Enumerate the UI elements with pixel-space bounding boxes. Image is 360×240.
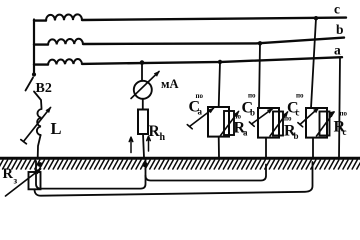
svg-text:В2: В2 <box>36 81 52 96</box>
wire left vertical bus <box>33 20 35 76</box>
wire phase line a <box>34 57 342 64</box>
node branch b tap <box>258 41 262 45</box>
wire branch c to ground <box>312 138 314 158</box>
node branch c tap <box>314 16 318 20</box>
arrow of resistor Rc <box>317 112 335 136</box>
svg-text:c: c <box>296 108 300 118</box>
wire L to ground <box>38 135 41 158</box>
arrow of capacitor Cb <box>252 109 273 124</box>
svg-text:b: b <box>250 108 255 118</box>
wire phase line b <box>34 38 344 45</box>
wire line a to branch a <box>219 62 220 107</box>
svg-text:a: a <box>243 128 248 138</box>
inductor coil on line a <box>48 59 82 65</box>
svg-text:a: a <box>198 107 203 117</box>
resistor Rh <box>138 110 148 135</box>
arrow of resistor Ra <box>221 112 239 136</box>
wire branch a to ground <box>218 137 220 158</box>
arrow of resistor Rз <box>6 169 41 196</box>
wire underground left link <box>36 161 146 189</box>
svg-text:по: по <box>196 92 204 100</box>
wire branch b to ground <box>265 138 267 158</box>
node earth junction near L <box>38 162 43 167</box>
svg-text:h: h <box>160 132 166 143</box>
svg-text:L: L <box>51 119 62 138</box>
svg-text:R: R <box>3 166 14 182</box>
arrow of capacitor Ca <box>190 108 214 126</box>
node switch top contact <box>32 72 36 76</box>
node Rh earth junction <box>142 162 147 167</box>
resistor Rb (variable) box <box>273 112 283 136</box>
meter mA <box>134 81 152 99</box>
arrow of meter <box>131 72 159 99</box>
arrow of resistor Rb <box>270 112 288 136</box>
svg-text:мА: мА <box>161 77 179 91</box>
svg-text:по: по <box>340 110 348 118</box>
inductor coil on line b <box>48 39 83 45</box>
node meter tap on line a <box>140 60 145 65</box>
arrow of variable inductor L <box>24 108 51 142</box>
resistor Rc (variable) box <box>320 112 330 136</box>
wire phase line c <box>34 18 346 21</box>
svg-text:c: c <box>334 2 340 17</box>
svg-text:по: по <box>234 113 242 121</box>
svg-text:з: з <box>14 176 18 186</box>
capacitor Ca (variable) box <box>208 107 229 137</box>
wire meter to Rh <box>142 99 144 110</box>
wire line b to branch b <box>259 43 260 108</box>
svg-text:по: по <box>296 92 304 100</box>
wire underground inner loop <box>146 159 267 181</box>
wire line a to meter <box>141 63 143 81</box>
resistor Rз (earthing) box <box>29 172 41 189</box>
capacitor Cc (variable) box <box>306 108 327 138</box>
svg-text:b: b <box>336 22 344 37</box>
current arrow left of Rh <box>129 137 133 152</box>
wire line c to branch c <box>311 18 316 108</box>
switch B2 blade <box>26 78 34 91</box>
inductor coil on line c <box>46 14 82 20</box>
wire switch to inductor L <box>34 92 42 109</box>
current arrow right of Rh <box>147 136 151 151</box>
node branch a tap <box>218 60 222 64</box>
ground hatching <box>0 160 360 169</box>
svg-text:c: c <box>343 127 347 137</box>
wire Rh to ground <box>143 134 144 158</box>
wire underground outer loop <box>35 162 313 196</box>
ground surface line <box>0 157 360 160</box>
wire right end of line a down to ground <box>339 58 340 159</box>
svg-text:a: a <box>334 43 341 58</box>
capacitor Cb (variable) box <box>258 108 279 138</box>
inductor L (variable) <box>37 109 42 135</box>
resistor Ra (variable) box <box>224 111 234 135</box>
arrow of capacitor Cc <box>300 108 319 125</box>
svg-text:по: по <box>248 92 256 100</box>
svg-text:b: b <box>294 131 299 141</box>
